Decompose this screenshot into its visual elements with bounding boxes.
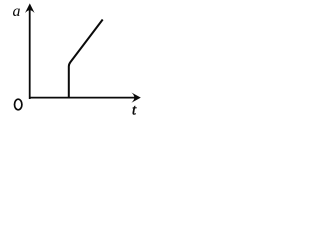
svg-text:a: a (13, 3, 21, 20)
t-axis arrowhead (131, 93, 140, 103)
t-axis (horizontal axis line) (29, 97, 135, 99)
label O (origin) (15, 99, 22, 110)
svg-text:t: t (132, 102, 137, 118)
a-axis arrowhead (25, 3, 35, 13)
a-axis (vertical axis line) (29, 7, 31, 99)
graph curve: vertical jump then diagonal ramp (69, 20, 103, 99)
